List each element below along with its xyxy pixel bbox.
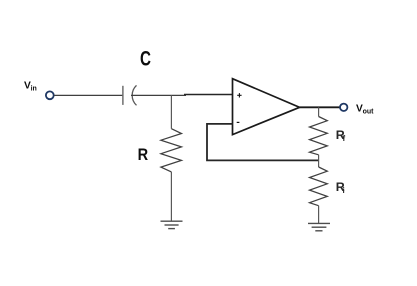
resistor R [161,129,182,172]
terminal Vout [340,104,347,111]
op-amp - pin mark [237,121,240,123]
svg-text:R: R [138,146,149,164]
svg-text:f: f [343,134,346,143]
wire node to op-amp + input [184,94,233,96]
node Vin label [24,80,37,92]
wire Ri to ground [318,206,320,224]
terminal Vin [46,91,54,99]
svg-text:out: out [363,108,375,115]
op-amp U1 [233,79,300,135]
wire output node down to Rf [318,107,320,116]
svg-text:i: i [343,186,345,195]
wire Vin to capacitor [54,94,122,96]
node Vout label [356,103,374,115]
output wire [300,106,340,108]
label Ri [336,180,345,195]
wire Rf to junction to Ri [318,155,320,167]
feedback wire (- input to Rf/Ri junction) [207,124,319,160]
wire node down to R [170,95,172,128]
ground (right) [308,223,330,230]
resistor Ri [310,167,328,206]
op-amp + pin mark [237,93,241,97]
label Rf [336,128,346,143]
capacitor C [123,85,137,105]
ground (left) [161,221,183,228]
resistor Rf [310,117,328,155]
wire capacitor to node [131,94,186,96]
wire R to ground [170,172,172,221]
svg-text:C: C [140,48,151,71]
svg-text:in: in [31,85,37,92]
